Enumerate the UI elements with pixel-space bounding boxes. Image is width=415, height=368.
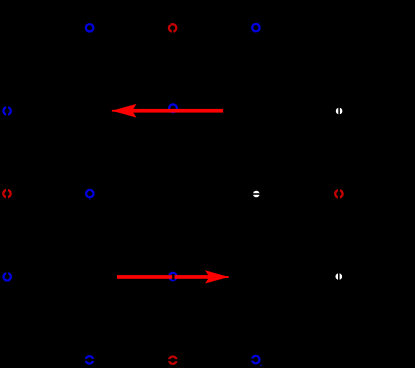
wire (black bond crossing red O vertically) bbox=[6, 188, 8, 200]
node O (red, row3 right) bbox=[335, 190, 342, 197]
node O (red, row3 far-left) bbox=[3, 190, 10, 197]
node white atom circle (row3 middle-right) bbox=[253, 191, 260, 198]
node O (blue, on right arrow) bbox=[169, 273, 176, 280]
node O (red, top-middle) bbox=[169, 24, 176, 31]
node white atom circle (row2 right) bbox=[336, 108, 343, 115]
wire (black bond crossing white circle vertically) bbox=[338, 107, 340, 116]
arrow (red, pointing left, row2) bbox=[112, 104, 223, 118]
node O (red, row5 middle) bbox=[169, 357, 176, 364]
node O (blue, top-left molecule ketone) bbox=[86, 24, 93, 31]
wire (black bond crossing blue O horizontally, left half) bbox=[250, 359, 255, 361]
wire (faint blue half-bond dot, upper-right of top-right O) bbox=[258, 22, 260, 24]
node O (blue, row3) bbox=[86, 190, 93, 197]
wire (black bond crossing left O top) bbox=[6, 271, 8, 277]
node O (blue, row2 far-left) bbox=[3, 107, 10, 114]
wire (black bond crossing red O vertically) bbox=[338, 188, 340, 200]
wire (black bond notch at bottom of red O) bbox=[172, 30, 174, 35]
arrow (red, pointing right, row4) bbox=[117, 270, 229, 283]
wire (faint blue half-bond stub below O) bbox=[89, 198, 91, 200]
wire (black bond over arrow through blue O, vertical) bbox=[172, 274, 174, 280]
wire (faint blue half-bond stub, lower-right of O) bbox=[260, 365, 262, 367]
node O (blue, row4 far-left) bbox=[3, 273, 10, 280]
wire (black bond notch upper-left of red O) bbox=[169, 23, 171, 25]
wire (black bond crossing blue O horizontally) bbox=[84, 359, 96, 361]
wire (black bond crossing white circle vertically) bbox=[338, 272, 340, 281]
node O (blue, row5 left) bbox=[86, 356, 93, 363]
node O (blue, row5 right) bbox=[252, 356, 259, 363]
wire (black bond crossing red O horizontally) bbox=[167, 359, 179, 361]
node O (blue, on left arrow) bbox=[169, 104, 177, 112]
wire (black bond crossing white circle horizontally) bbox=[252, 193, 261, 195]
node O (blue, top-right) bbox=[252, 24, 259, 31]
node white atom circle (row4 right) bbox=[336, 273, 343, 280]
wire (black bond crossing left O vertically) bbox=[6, 105, 8, 118]
